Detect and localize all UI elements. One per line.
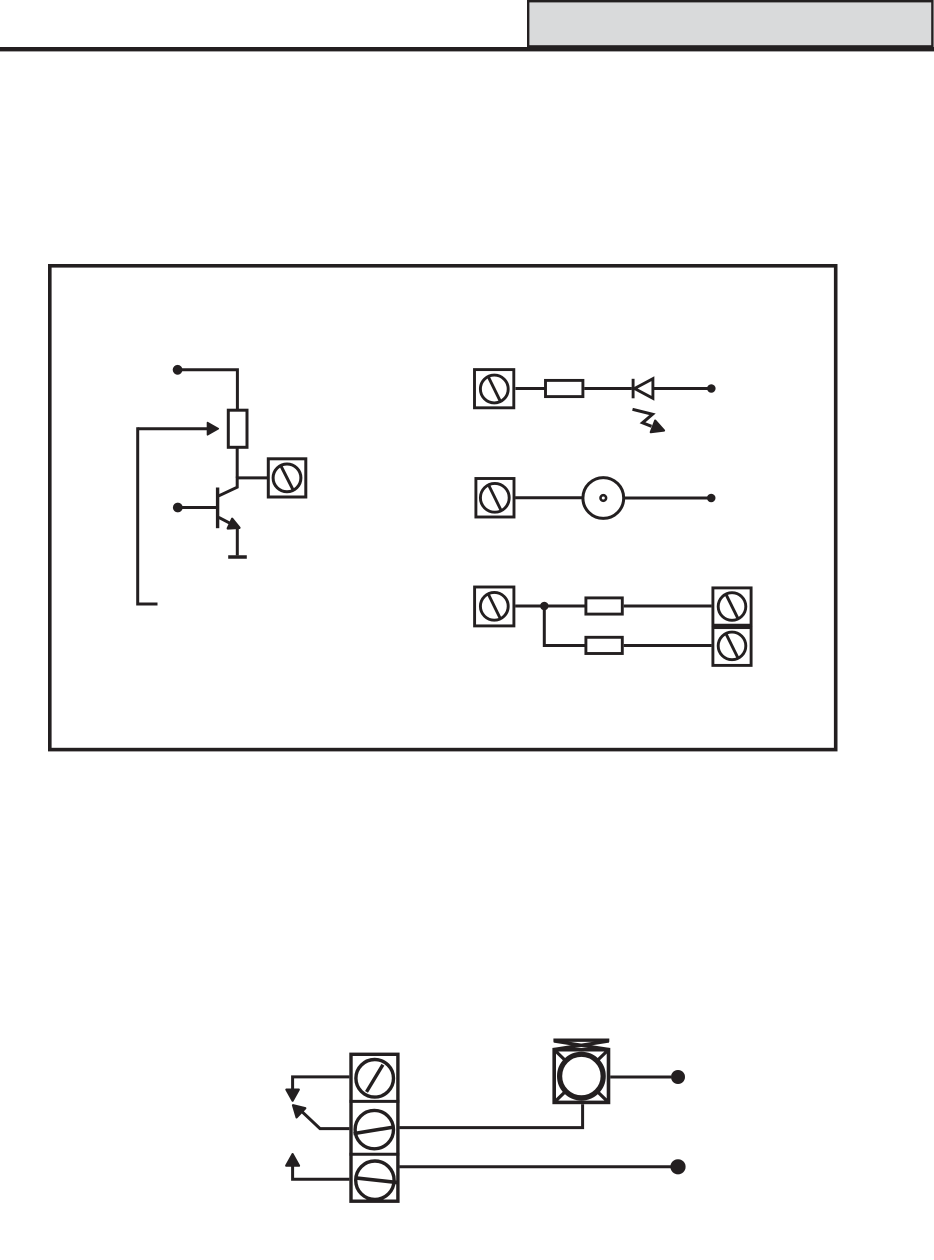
header rule bbox=[0, 47, 934, 51]
wire: R2 to diode bbox=[584, 387, 631, 390]
wire: strip 3 right to line end dot bbox=[400, 1165, 672, 1168]
solenoid valve Y1 body bbox=[554, 1050, 608, 1103]
LED D1 (diode, cathode left) bbox=[633, 379, 653, 399]
screw terminal (LED branch input) bbox=[475, 370, 514, 408]
resistor R4 (lower) bbox=[586, 637, 622, 653]
transistor Q1 collector lead bbox=[218, 477, 237, 497]
screw terminal (lower of pair) bbox=[713, 628, 751, 666]
node: base terminal dot bbox=[173, 503, 183, 513]
wire: terminal to junction bbox=[515, 605, 544, 608]
wire: junction drop to lower branch bbox=[544, 605, 586, 646]
wire: terminal to sounder bbox=[516, 496, 584, 499]
wire: terminal to R2 bbox=[516, 387, 546, 390]
wire: emitter to ground bbox=[236, 527, 239, 555]
screw 1 (strip top) bbox=[356, 1060, 394, 1098]
wire: base dot to Q1 bbox=[180, 506, 216, 509]
wire: feedback arrow into R1 bbox=[138, 423, 219, 435]
wire: R3 to upper terminal bbox=[624, 605, 712, 608]
terminal strip divider 2 bbox=[349, 1153, 399, 1156]
screw terminal (sounder branch input) bbox=[476, 479, 514, 518]
wire: R1 bottom to collector junction bbox=[236, 447, 239, 478]
node: supply terminal dot bbox=[173, 365, 183, 375]
wire: R4 to lower terminal bbox=[624, 644, 712, 647]
transistor Q1 base bar bbox=[216, 488, 219, 529]
wire: junction to R3 bbox=[544, 605, 586, 608]
resistor R1 (collector load, vertical) bbox=[228, 410, 247, 447]
screw terminal (resistor pair input) bbox=[475, 587, 514, 626]
node: sounder branch end dot bbox=[707, 494, 716, 503]
solenoid valve Y1 actuator (bowtie cap) bbox=[553, 1040, 609, 1049]
ground bbox=[228, 555, 247, 558]
wire: strip 2 left diagonal with up-left arrow bbox=[293, 1105, 349, 1128]
screw terminal (collector output) bbox=[268, 459, 306, 497]
wire: diode to node dot bbox=[653, 387, 708, 390]
wire: strip 1 left with down arrow bbox=[286, 1077, 349, 1101]
terminal strip (3-way) outer frame bbox=[351, 1054, 398, 1201]
node: valve line end dot bbox=[671, 1070, 685, 1084]
wire: collector junction to terminal bbox=[237, 476, 267, 479]
schematic enclosure box bbox=[50, 266, 836, 750]
wire: supply dot to resistor top bbox=[180, 370, 237, 409]
wire: sounder to node dot bbox=[624, 497, 708, 500]
resistor R2 (series LED resistor) bbox=[546, 380, 583, 396]
transistor Q1 emitter lead with arrow bbox=[219, 517, 240, 528]
wire: strip 2 right to valve bbox=[400, 1104, 583, 1127]
screw 2 (strip middle) bbox=[354, 1110, 395, 1148]
resistor R3 (upper) bbox=[586, 598, 622, 614]
node: junction dot bbox=[540, 602, 549, 611]
node: bottom line end dot bbox=[670, 1159, 685, 1174]
terminal strip divider 1 bbox=[349, 1100, 399, 1103]
wire: valve right to line end dot bbox=[610, 1076, 671, 1079]
sounder B1 (buzzer circle with dot) bbox=[583, 478, 624, 519]
wire: strip 3 left with up arrow bbox=[286, 1154, 349, 1179]
screw 3 (strip bottom) bbox=[356, 1161, 398, 1199]
node: LED branch end dot bbox=[707, 384, 716, 393]
wire: feedback bracket down and stub bbox=[138, 427, 158, 604]
LED D1 light emission arrow bbox=[633, 409, 665, 432]
header grey title block bbox=[528, 1, 932, 46]
screw terminal (upper of pair) bbox=[713, 588, 751, 625]
